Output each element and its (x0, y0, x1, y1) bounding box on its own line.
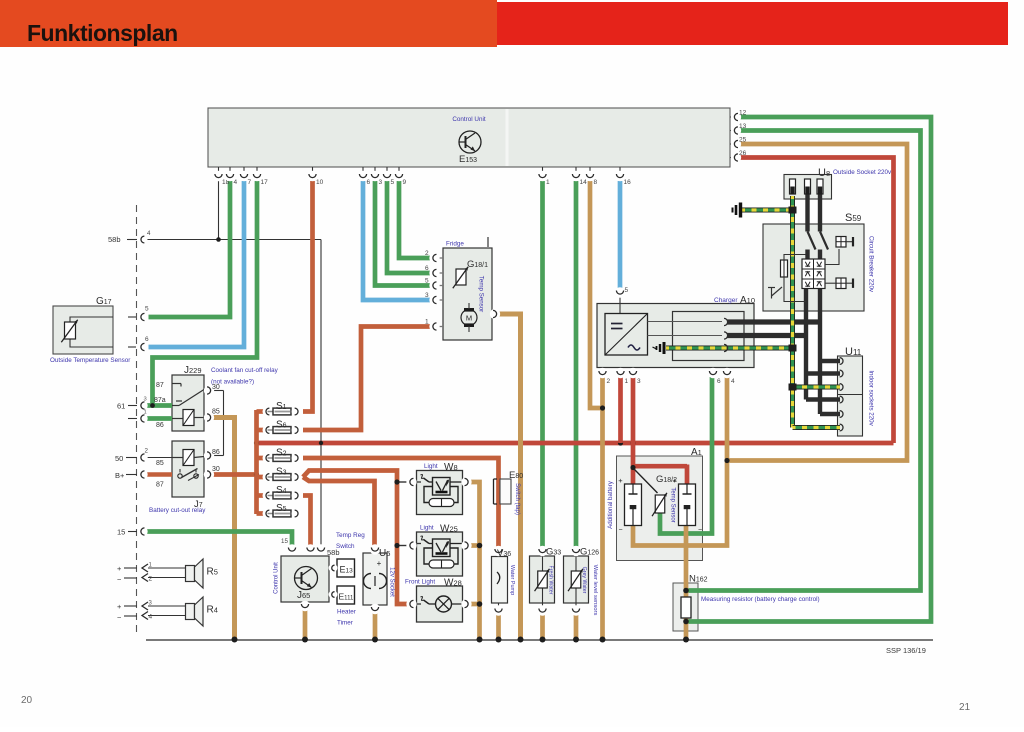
svg-text:Outside Temperature Sensor: Outside Temperature Sensor (50, 357, 130, 364)
svg-text:17: 17 (261, 179, 269, 186)
svg-text:Front Light: Front Light (405, 579, 435, 586)
svg-text:4: 4 (147, 230, 151, 237)
svg-text:1: 1 (625, 378, 629, 385)
svg-text:Temp Sensor: Temp Sensor (478, 276, 485, 312)
svg-text:Additional battery: Additional battery (607, 480, 614, 529)
svg-text:3: 3 (144, 397, 147, 403)
svg-text:20: 20 (21, 695, 33, 706)
svg-text:5: 5 (391, 179, 395, 186)
svg-text:Timer: Timer (337, 620, 353, 627)
svg-text:Fridge: Fridge (446, 241, 464, 248)
svg-text:85: 85 (156, 460, 164, 467)
svg-text:4: 4 (149, 614, 153, 621)
svg-text:M: M (466, 314, 472, 323)
svg-text:Coolant fan cut-off relay: Coolant fan cut-off relay (211, 367, 279, 374)
svg-text:R5: R5 (207, 567, 218, 578)
svg-text:30: 30 (212, 384, 220, 391)
svg-text:2: 2 (607, 378, 611, 385)
svg-text:12: 12 (739, 110, 747, 117)
svg-text:4: 4 (234, 179, 238, 186)
svg-text:9: 9 (403, 179, 407, 186)
svg-text:−: − (117, 613, 122, 622)
svg-text:+: + (618, 476, 623, 485)
svg-text:A1: A1 (691, 447, 702, 458)
svg-text:J229: J229 (184, 365, 202, 376)
svg-text:86: 86 (156, 422, 164, 429)
svg-text:+: + (377, 559, 382, 568)
svg-text:Switch (tap): Switch (tap) (514, 483, 520, 515)
svg-text:1: 1 (144, 410, 147, 416)
svg-text:87a: 87a (154, 397, 166, 404)
svg-text:1: 1 (425, 319, 429, 326)
svg-text:16: 16 (624, 179, 632, 186)
svg-text:58b: 58b (108, 235, 121, 244)
svg-text:4: 4 (731, 378, 735, 385)
svg-text:SSP 136/19: SSP 136/19 (886, 646, 926, 655)
svg-text:3: 3 (425, 292, 429, 299)
svg-text:Funktionsplan: Funktionsplan (27, 20, 178, 46)
svg-text:86: 86 (212, 449, 220, 456)
svg-text:3: 3 (637, 378, 641, 385)
svg-text:61: 61 (117, 402, 125, 411)
svg-text:Outside Socket 220v: Outside Socket 220v (833, 169, 892, 176)
svg-text:Water Pump: Water Pump (509, 565, 515, 595)
svg-text:15: 15 (117, 528, 125, 537)
svg-text:W25: W25 (440, 524, 458, 535)
svg-text:U8: U8 (818, 167, 830, 179)
svg-text:12v Socket: 12v Socket (389, 567, 395, 597)
svg-text:25: 25 (739, 137, 747, 144)
svg-text:Charger: Charger (714, 297, 738, 304)
svg-text:+: + (117, 602, 122, 611)
svg-text:Circuit Breaker 220v: Circuit Breaker 220v (868, 236, 875, 293)
svg-text:8: 8 (594, 179, 598, 186)
svg-text:Heater: Heater (337, 609, 356, 616)
svg-text:Water level sensors: Water level sensors (592, 565, 598, 616)
svg-text:3: 3 (379, 179, 383, 186)
svg-text:U5: U5 (379, 548, 390, 559)
svg-text:W8: W8 (444, 462, 458, 473)
svg-text:R4: R4 (207, 605, 218, 616)
svg-text:6: 6 (717, 378, 721, 385)
svg-text:2: 2 (425, 250, 429, 257)
svg-text:Control Unit: Control Unit (274, 562, 280, 594)
svg-text:Fresh Water: Fresh Water (548, 566, 554, 595)
svg-text:Light: Light (424, 463, 438, 470)
svg-text:2: 2 (149, 576, 153, 583)
svg-text:2: 2 (145, 448, 149, 455)
svg-text:6: 6 (425, 265, 429, 272)
svg-text:85: 85 (212, 409, 220, 416)
svg-text:5: 5 (425, 278, 429, 285)
svg-text:+: + (117, 564, 122, 573)
svg-text:−: − (698, 527, 702, 534)
svg-text:5: 5 (145, 306, 149, 313)
svg-text:21: 21 (959, 702, 971, 713)
svg-text:Measuring resistor (battery ch: Measuring resistor (battery charge contr… (701, 596, 820, 603)
svg-text:7: 7 (248, 179, 252, 186)
svg-text:5: 5 (625, 287, 629, 294)
svg-text:15: 15 (281, 538, 288, 545)
svg-text:Temp Sensor: Temp Sensor (670, 487, 676, 522)
svg-text:Battery cut-out relay: Battery cut-out relay (149, 507, 206, 514)
svg-text:30: 30 (212, 466, 220, 473)
svg-text:87: 87 (156, 482, 164, 489)
svg-text:6: 6 (367, 179, 371, 186)
svg-text:6: 6 (145, 336, 149, 343)
svg-text:Temp Reg: Temp Reg (336, 532, 365, 539)
svg-text:14: 14 (580, 179, 588, 186)
svg-text:−: − (117, 575, 122, 584)
svg-text:U11: U11 (845, 346, 862, 358)
svg-text:Light: Light (420, 525, 434, 532)
svg-text:B+: B+ (115, 471, 125, 480)
svg-text:+: + (672, 476, 677, 485)
svg-text:−: − (618, 527, 622, 534)
svg-text:J65: J65 (297, 590, 310, 601)
svg-text:S59: S59 (845, 212, 862, 224)
svg-text:87: 87 (156, 382, 164, 389)
svg-text:13: 13 (739, 123, 747, 130)
svg-text:Switch: Switch (336, 543, 355, 550)
svg-text:26: 26 (739, 150, 747, 157)
svg-text:10: 10 (316, 179, 324, 186)
svg-text:Indoor sockets 220v: Indoor sockets 220v (868, 370, 875, 426)
svg-text:50: 50 (115, 454, 123, 463)
svg-text:W28: W28 (444, 578, 462, 589)
svg-text:Control Unit: Control Unit (452, 116, 485, 123)
svg-text:1: 1 (546, 179, 550, 186)
svg-text:A10: A10 (740, 295, 755, 306)
svg-text:Grey Water: Grey Water (581, 567, 587, 594)
